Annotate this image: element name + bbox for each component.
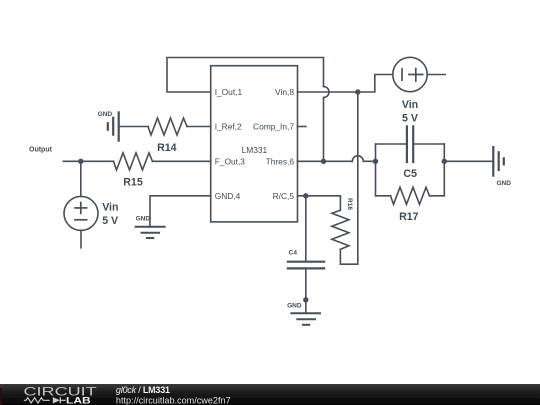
node: C4/ground junction (303, 297, 308, 302)
C5/R17 parallel block right rail (443, 144, 445, 196)
svg-text:Vin: Vin (402, 99, 418, 111)
wire: loop vertical continues down to Thres,6 node (323, 98, 325, 162)
svg-text:Comp_In,7: Comp_In,7 (253, 122, 294, 132)
svg-text:Output: Output (29, 146, 53, 153)
svg-text:R16: R16 (346, 198, 353, 210)
svg-text:http://circuitlab.com/cwe2fn7: http://circuitlab.com/cwe2fn7 (116, 395, 231, 405)
resistor R15 (114, 153, 153, 170)
ground GND (battery style) at I_Ref,2 (108, 112, 119, 140)
wire: vertical from Vin,8 node down to R16 bottom (340, 92, 357, 264)
svg-text:Vin: Vin (102, 202, 118, 214)
resistor R16 (vertical) (332, 196, 349, 264)
svg-text:I_Out,1: I_Out,1 (215, 87, 243, 97)
svg-text:R/C,5: R/C,5 (273, 191, 295, 201)
node: Output junction (78, 159, 83, 164)
wire Thres,6 to C5/R17 block (hops over vertical wire) (298, 156, 376, 162)
wire: R15 to F_Out,3 (153, 160, 211, 162)
svg-text:C5: C5 (403, 168, 417, 180)
svg-text:C4: C4 (289, 250, 298, 257)
wire: block to right GND (444, 160, 493, 162)
node: block left junction (373, 159, 378, 164)
ground (earth) at GND,4 (136, 227, 165, 238)
wire hop: vertical loop wire hops over Vin,8 wire (324, 87, 330, 98)
svg-text:Thres,6: Thres,6 (266, 157, 295, 167)
wire Vin,8 to source V2 (298, 75, 393, 93)
footer text (116, 385, 231, 405)
capacitor C5 (376, 126, 445, 162)
IC U1 LM331 body (211, 66, 298, 222)
wire I_Out,1 to top loop (167, 58, 324, 93)
wire: C4 to ground (305, 268, 307, 313)
wire: R14 to I_Ref,2 (187, 126, 211, 128)
svg-text:GND,4: GND,4 (215, 191, 241, 201)
svg-text:Vin,8: Vin,8 (275, 87, 294, 97)
CircuitLab logo (24, 385, 97, 405)
svg-text:GND: GND (136, 216, 151, 223)
svg-text:R14: R14 (157, 142, 177, 154)
wire: GND to R14 (119, 126, 148, 128)
svg-text:R15: R15 (123, 177, 143, 189)
node: block right junction (442, 159, 447, 164)
svg-text:5 V: 5 V (102, 215, 118, 227)
svg-text:GND: GND (287, 303, 302, 310)
svg-text:GND: GND (496, 180, 511, 187)
svg-text:LAB: LAB (66, 396, 91, 405)
svg-text:F_Out,3: F_Out,3 (215, 157, 246, 167)
node: R/C,5 junction (303, 193, 308, 198)
node: Thres/loop junction (321, 159, 326, 164)
wire: Output node down to V1 (80, 161, 82, 196)
wire: R/C,5 node down to C4 (305, 196, 307, 262)
voltage source V2 (Vin 5V, horizontal) (393, 57, 427, 91)
wire: right terminal of V2 (dangling) (427, 74, 445, 76)
svg-text:I_Ref,2: I_Ref,2 (215, 122, 242, 132)
svg-text:5 V: 5 V (402, 113, 418, 125)
resistor R14 (148, 118, 187, 135)
resistor R17 (376, 187, 445, 204)
wire: GND,4 to ground (150, 196, 211, 226)
pin stub Comp_In,7 (298, 126, 307, 128)
svg-text:LM331: LM331 (242, 145, 268, 155)
wire: V1 bottom lead (dangling) (80, 230, 82, 247)
capacitor C4 (288, 262, 324, 269)
ground GND (battery style) right (493, 147, 504, 176)
voltage source V1 (Vin 5V, vertical) (64, 196, 98, 230)
ground (earth) below C4 (291, 313, 320, 325)
svg-text:GND: GND (98, 111, 113, 118)
svg-text:gl0ck / LM331: gl0ck / LM331 (116, 385, 170, 395)
node: Vin,8 junction (355, 89, 360, 94)
wire: R/C,5 to R16 (298, 195, 341, 197)
wire: Output node to R15 (63, 160, 113, 162)
svg-text:R17: R17 (399, 211, 419, 223)
C5/R17 parallel block left rail (375, 144, 377, 196)
